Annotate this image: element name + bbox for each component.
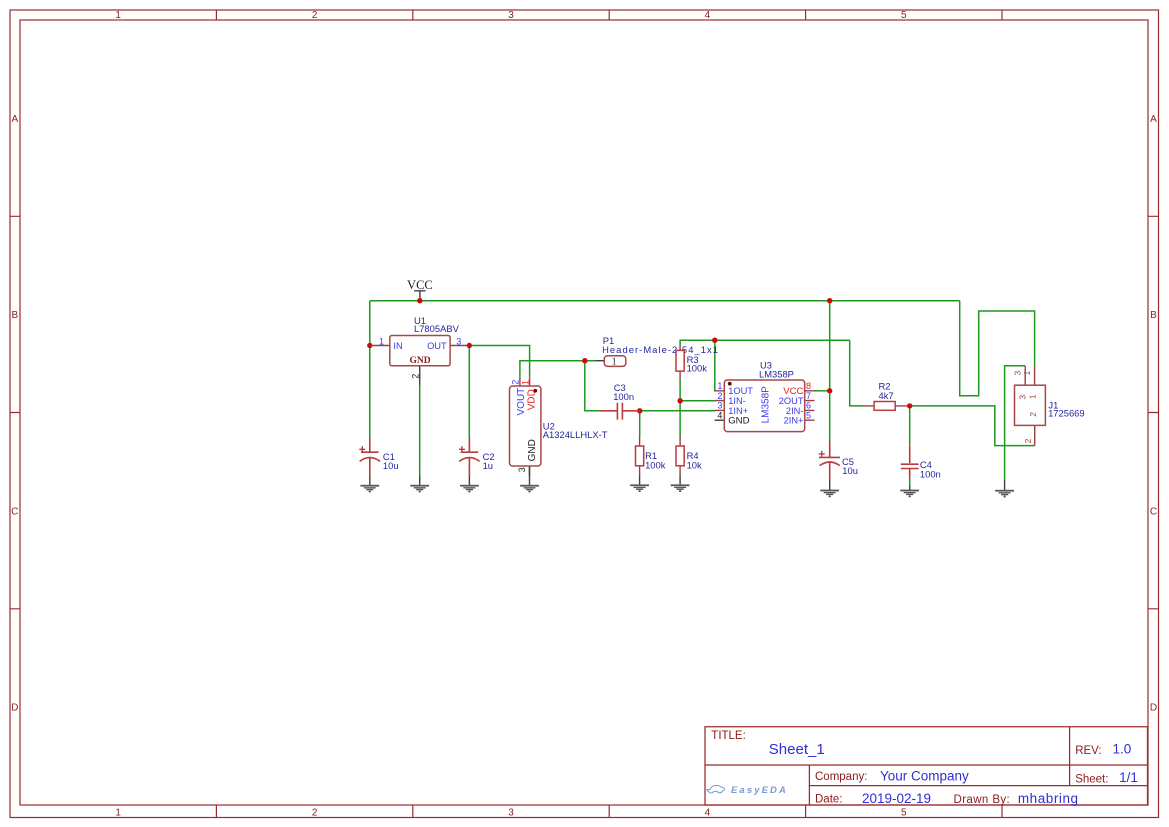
polarity plus bbox=[359, 446, 365, 452]
svg-text:1: 1 bbox=[612, 357, 617, 368]
svg-text:2: 2 bbox=[717, 391, 722, 401]
pin 3 stub bbox=[1024, 366, 1026, 385]
svg-text:D: D bbox=[11, 703, 18, 714]
svg-text:VDD: VDD bbox=[526, 389, 537, 410]
svg-text:1OUT: 1OUT bbox=[728, 386, 753, 396]
svg-text:1.0: 1.0 bbox=[1113, 741, 1132, 756]
svg-text:REV:: REV: bbox=[1075, 745, 1101, 757]
svg-text:1: 1 bbox=[379, 337, 384, 347]
pin line bbox=[595, 360, 604, 362]
svg-text:LM358P: LM358P bbox=[760, 386, 771, 424]
resistor R3 100k bbox=[676, 345, 707, 380]
svg-text:A: A bbox=[11, 114, 18, 125]
wire C4 lower stub bbox=[909, 479, 911, 486]
wire VCC rail bbox=[370, 300, 960, 302]
svg-text:EasyEDA: EasyEDA bbox=[731, 785, 788, 796]
svg-text:5: 5 bbox=[901, 807, 907, 818]
svg-text:Your Company: Your Company bbox=[880, 768, 969, 783]
wire node down to R4 bbox=[679, 401, 681, 437]
svg-text:1/1: 1/1 bbox=[1119, 770, 1138, 785]
svg-text:5: 5 bbox=[806, 410, 811, 420]
svg-text:10u: 10u bbox=[842, 465, 858, 476]
pin 1 bbox=[371, 345, 390, 347]
svg-text:2OUT: 2OUT bbox=[779, 396, 804, 406]
regulator U1 L7805ABV bbox=[371, 315, 469, 385]
right pin stubs 8,7,6,5 bbox=[805, 391, 815, 420]
polarity plus bbox=[819, 451, 825, 457]
curved plate bbox=[459, 458, 479, 462]
pin 3 bbox=[450, 345, 469, 347]
wire P1 node down to C3 bbox=[585, 361, 600, 411]
svg-text:10u: 10u bbox=[383, 460, 399, 471]
net flag VCC bbox=[407, 278, 433, 298]
pin 2 stub bbox=[519, 376, 521, 386]
wire node to U3 1IN- bbox=[680, 400, 715, 402]
svg-text:B: B bbox=[1150, 310, 1157, 321]
wire R2 node down to C4 bbox=[909, 406, 911, 446]
svg-text:4: 4 bbox=[705, 807, 711, 818]
resistor R4 10k bbox=[676, 436, 702, 476]
svg-text:8: 8 bbox=[806, 381, 811, 391]
svg-text:Header-Male-2.54_1x1: Header-Male-2.54_1x1 bbox=[602, 344, 719, 355]
svg-text:1: 1 bbox=[1028, 394, 1038, 399]
svg-text:100k: 100k bbox=[687, 363, 708, 374]
svg-text:L7805ABV: L7805ABV bbox=[414, 323, 460, 334]
wire U1 GND pin column bbox=[419, 385, 421, 476]
svg-text:2: 2 bbox=[312, 10, 318, 21]
svg-text:4: 4 bbox=[705, 10, 711, 21]
svg-text:2: 2 bbox=[1028, 412, 1038, 417]
junction R3 / R4 / 1IN- bbox=[677, 398, 682, 403]
svg-text:2IN-: 2IN- bbox=[786, 406, 804, 416]
ground C4 bbox=[900, 486, 919, 498]
pin1 dot bbox=[533, 389, 537, 393]
svg-text:7: 7 bbox=[806, 391, 811, 401]
svg-text:3: 3 bbox=[1017, 395, 1027, 400]
svg-text:C: C bbox=[1150, 506, 1157, 517]
polarity plus bbox=[459, 446, 465, 452]
pin 4 stub bbox=[715, 419, 725, 421]
wire R3 bottom to node bbox=[679, 379, 681, 401]
junction VCC stem bbox=[417, 298, 422, 303]
pin 2 stub bbox=[1034, 425, 1036, 445]
wire VCC column down to C5 bbox=[829, 301, 831, 441]
op-amp U3 LM358P bbox=[715, 359, 815, 431]
capacitor C4 100n bbox=[901, 446, 941, 480]
svg-text:Date:: Date: bbox=[815, 794, 843, 806]
ground U2 pin3 bbox=[520, 466, 539, 492]
junction U1 IN / C1 bbox=[367, 343, 372, 348]
svg-text:1IN+: 1IN+ bbox=[728, 406, 748, 416]
svg-text:GND: GND bbox=[409, 356, 430, 366]
wire C3 to U3 1IN+ bbox=[640, 410, 715, 412]
svg-text:100n: 100n bbox=[613, 391, 634, 402]
wire C3 node down to R1 bbox=[639, 411, 641, 436]
wire R3 top net bbox=[680, 340, 850, 345]
junction C3 / R1 / 1IN+ bbox=[637, 408, 642, 413]
svg-text:5: 5 bbox=[901, 10, 907, 21]
capacitor C1 10u bbox=[359, 437, 398, 476]
svg-text:GND: GND bbox=[527, 439, 538, 461]
svg-text:A: A bbox=[1150, 114, 1157, 125]
capacitor C2 1u bbox=[459, 437, 495, 476]
wire C2 column bbox=[468, 346, 470, 438]
EasyEDA logo bbox=[707, 785, 788, 796]
svg-text:3: 3 bbox=[717, 401, 722, 411]
svg-text:1: 1 bbox=[717, 381, 722, 391]
svg-text:OUT: OUT bbox=[427, 341, 447, 351]
svg-text:GND: GND bbox=[728, 416, 749, 427]
svg-text:C: C bbox=[11, 506, 18, 517]
svg-text:2019-02-19: 2019-02-19 bbox=[862, 791, 931, 806]
pin 3 stub bbox=[529, 466, 531, 476]
svg-text:1: 1 bbox=[520, 380, 530, 385]
svg-text:Sheet:: Sheet: bbox=[1075, 774, 1108, 786]
junction U3 VCC / C5 column bbox=[827, 388, 832, 393]
svg-text:A1324LLHLX-T: A1324LLHLX-T bbox=[543, 429, 608, 440]
ground U1 pin2 bbox=[410, 476, 429, 492]
svg-text:1IN-: 1IN- bbox=[728, 396, 746, 406]
left pin stubs 1,2,3 bbox=[715, 391, 725, 411]
pin 1 stub bbox=[1034, 366, 1036, 385]
ground J1 pin3 bbox=[995, 480, 1014, 497]
wire U3 VCC pin to rail column bbox=[815, 390, 830, 392]
wire C1 column bbox=[369, 301, 371, 437]
svg-text:1u: 1u bbox=[483, 460, 493, 471]
ground R1 bbox=[630, 475, 649, 492]
svg-text:2: 2 bbox=[1023, 438, 1033, 443]
svg-text:1725669: 1725669 bbox=[1048, 408, 1085, 419]
pin 2 bbox=[419, 366, 421, 386]
wire U2 VOUT riser to P1 bbox=[520, 361, 595, 377]
wire U1 OUT to U2 VDD bbox=[469, 346, 529, 377]
junction P1 node bbox=[582, 358, 587, 363]
wire VCC rail right drop to J1 pin1 bbox=[960, 301, 1035, 396]
svg-text:Company:: Company: bbox=[815, 771, 867, 783]
svg-text:4k7: 4k7 bbox=[879, 390, 894, 401]
svg-text:2: 2 bbox=[511, 380, 521, 385]
svg-text:Sheet_1: Sheet_1 bbox=[769, 741, 825, 758]
svg-text:3: 3 bbox=[517, 467, 527, 472]
svg-text:D: D bbox=[1150, 703, 1157, 714]
title block bbox=[705, 727, 1148, 806]
pin1 dot bbox=[728, 382, 732, 386]
svg-text:IN: IN bbox=[393, 341, 402, 351]
capacitor C5 10u bbox=[819, 441, 858, 480]
svg-text:3: 3 bbox=[456, 337, 461, 347]
curved plate bbox=[820, 462, 840, 466]
resistor R1 100k bbox=[636, 436, 666, 476]
svg-text:3: 3 bbox=[508, 10, 514, 21]
ground R4 bbox=[671, 475, 690, 492]
svg-text:2IN+: 2IN+ bbox=[784, 416, 804, 426]
junction VCC rail / U3 supply column bbox=[827, 298, 832, 303]
svg-text:1: 1 bbox=[115, 10, 121, 21]
svg-text:100n: 100n bbox=[920, 469, 941, 480]
wire down to R2 left bbox=[850, 340, 865, 406]
svg-text:B: B bbox=[11, 310, 18, 321]
curved plate bbox=[360, 458, 380, 462]
capacitor C3 100n bbox=[600, 382, 640, 420]
svg-text:3: 3 bbox=[508, 807, 514, 818]
svg-text:2: 2 bbox=[312, 807, 318, 818]
wire R2 out to J1 pin2 bbox=[910, 406, 1035, 446]
svg-text:10k: 10k bbox=[687, 460, 702, 471]
svg-text:100k: 100k bbox=[645, 460, 666, 471]
svg-text:TITLE:: TITLE: bbox=[711, 730, 746, 742]
ground C2 bbox=[460, 476, 479, 492]
resistor R2 4k7 bbox=[865, 381, 908, 411]
svg-text:Drawn By:: Drawn By: bbox=[954, 794, 1011, 806]
svg-text:6: 6 bbox=[806, 401, 811, 411]
wire J1 pin3 to ground bbox=[1005, 366, 1026, 480]
pin 1 stub bbox=[529, 376, 531, 386]
wire node to U3 1OUT bbox=[715, 340, 716, 391]
CIRCUIT bbox=[359, 278, 1084, 497]
svg-text:mhabring: mhabring bbox=[1018, 791, 1079, 806]
junction R3 top / 1OUT bbox=[712, 338, 717, 343]
junction R2 / C4 / J1 bbox=[907, 403, 912, 408]
ground C5 bbox=[820, 480, 839, 497]
connector J1 1725669 bbox=[1013, 366, 1085, 445]
junction U1 OUT / C2 bbox=[467, 343, 472, 348]
svg-text:LM358P: LM358P bbox=[759, 369, 794, 380]
svg-text:1: 1 bbox=[115, 807, 121, 818]
header P1 bbox=[595, 335, 719, 367]
ground C1 bbox=[360, 476, 379, 492]
svg-text:1: 1 bbox=[1022, 371, 1032, 376]
svg-text:4: 4 bbox=[717, 410, 722, 420]
svg-text:2: 2 bbox=[411, 374, 421, 379]
hall sensor U2 A1324LLHLX-T bbox=[510, 376, 608, 476]
